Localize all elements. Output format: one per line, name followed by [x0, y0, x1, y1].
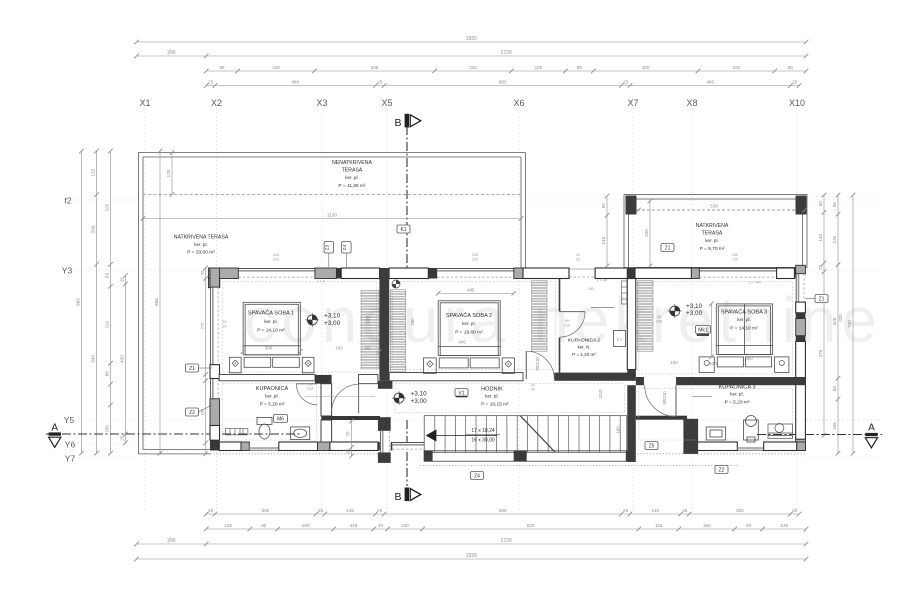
svg-text:220: 220 — [469, 65, 477, 70]
dimension row top-4 — [204, 80, 801, 88]
svg-text:20: 20 — [222, 325, 226, 329]
svg-text:540: 540 — [91, 355, 96, 363]
svg-text:A: A — [51, 423, 58, 434]
dimension col terrace-left — [601, 194, 609, 269]
dimension col left-1 865 — [76, 149, 84, 456]
svg-text:90/210: 90/210 — [535, 357, 540, 371]
bottom wall right pier a — [693, 442, 737, 451]
svg-text:160: 160 — [302, 523, 310, 528]
svg-text:60: 60 — [365, 346, 370, 351]
room label KUPAONICA — [256, 386, 289, 408]
dimension row top-3 — [204, 65, 808, 73]
svg-text:470: 470 — [706, 326, 711, 333]
tag Z1 left — [186, 364, 199, 372]
section marker A left — [49, 423, 61, 448]
svg-text:ker. pl.: ker. pl. — [462, 321, 476, 326]
svg-text:25: 25 — [818, 264, 823, 270]
level text soba1 — [324, 313, 341, 327]
svg-text:325: 325 — [832, 317, 837, 325]
window soba1 north — [238, 268, 315, 279]
svg-text:445: 445 — [458, 340, 466, 345]
svg-text:240: 240 — [472, 253, 478, 257]
window kupaonica west — [210, 379, 220, 399]
left wall gray block — [210, 399, 220, 426]
svg-text:60: 60 — [105, 371, 110, 377]
door kupaonica2 (arc) — [560, 312, 586, 338]
radiator kupaonica2 (east wall) — [622, 281, 628, 304]
pavement dotted line left — [143, 453, 392, 455]
leader line in vestibule — [305, 395, 375, 397]
svg-text:740: 740 — [847, 320, 852, 328]
closet soba2 (east wall) — [532, 281, 548, 351]
tag V1 underline — [456, 396, 467, 398]
window kupaonica south (low sill) — [249, 448, 278, 450]
svg-text:25: 25 — [208, 80, 214, 85]
svg-text:P = 14,10 m²: P = 14,10 m² — [730, 326, 758, 332]
closet soba1 (east wall) — [361, 291, 379, 369]
svg-text:185: 185 — [588, 287, 594, 291]
top wall gray square j5 — [691, 268, 699, 279]
central wall landing lower block — [378, 452, 391, 463]
dimension col right-1 — [818, 193, 826, 438]
svg-text:ker. pl.: ker. pl. — [705, 238, 719, 243]
section line A right (dash-dot) — [757, 434, 882, 436]
svg-text:200: 200 — [167, 50, 176, 56]
dimension row bottom-1 — [204, 508, 801, 516]
svg-text:+3,10: +3,10 — [324, 313, 341, 320]
svg-text:240: 240 — [273, 253, 279, 257]
svg-text:Z4: Z4 — [474, 473, 480, 479]
svg-text:Z4: Z4 — [342, 244, 347, 250]
svg-text:ker. pl.: ker. pl. — [485, 394, 499, 399]
svg-text:26: 26 — [222, 320, 226, 324]
tag Z4 bottom — [471, 472, 484, 480]
bottom wall gray square b — [318, 442, 330, 451]
svg-text:SPAVAĆA SOBA 3: SPAVAĆA SOBA 3 — [721, 309, 767, 316]
dimension right terrace 200 — [644, 199, 652, 269]
stairs label 17x18,24 / 16x30,00 — [466, 428, 500, 444]
svg-text:HODNIK: HODNIK — [481, 387, 503, 393]
svg-text:63: 63 — [105, 272, 110, 278]
dimension row top-2 200+1720 — [134, 50, 808, 58]
tag Z2 bottom — [715, 466, 728, 474]
boiler kupaonica3 — [744, 416, 759, 443]
svg-text:290: 290 — [262, 508, 270, 513]
svg-text:P = 33,00 m²: P = 33,00 m² — [187, 250, 215, 256]
left wall gray top (corner leg) — [210, 268, 220, 287]
tag Z3 leader — [328, 253, 330, 267]
bed soba2 — [424, 301, 515, 374]
svg-text:125: 125 — [91, 169, 96, 177]
svg-text:220: 220 — [732, 65, 740, 70]
top wall corner L leg down — [208, 279, 219, 288]
svg-text:P = 9,70 m²: P = 9,70 m² — [700, 246, 725, 252]
right wall gray block — [796, 319, 806, 336]
svg-text:+3,10: +3,10 — [411, 391, 428, 398]
tag Z1 right — [815, 295, 828, 303]
svg-text:s +: s + — [617, 338, 623, 342]
dimension col left-4 — [120, 273, 128, 445]
door soba2 (arc) — [526, 351, 554, 379]
svg-text:ker. pl.: ker. pl. — [730, 392, 744, 397]
svg-text:470: 470 — [818, 349, 823, 357]
svg-text:25: 25 — [346, 449, 351, 455]
vestibule north pier — [359, 375, 378, 384]
hallway top wall under soba2 — [389, 373, 523, 381]
svg-text:25: 25 — [377, 508, 383, 513]
svg-text:Y6: Y6 — [65, 440, 76, 450]
dimension bed3 length — [706, 301, 714, 359]
svg-text:55: 55 — [832, 202, 837, 208]
opening kupaonica2 north (dashed) — [569, 269, 595, 277]
dimension col right-3 740 — [847, 193, 855, 456]
svg-text:210: 210 — [564, 324, 570, 328]
svg-text:430: 430 — [120, 355, 125, 363]
top wall pier P3 — [523, 268, 569, 279]
bottom wall pier a — [219, 442, 241, 451]
svg-text:145: 145 — [818, 233, 823, 241]
svg-text:290: 290 — [736, 508, 744, 513]
dimension row top-1 total 1920 — [134, 36, 808, 44]
svg-text:1130: 1130 — [327, 213, 337, 218]
svg-text:206: 206 — [656, 320, 662, 324]
top wall gray square j3 — [514, 268, 523, 279]
section line A left (dash-dot) — [46, 433, 302, 435]
svg-text:145: 145 — [346, 508, 354, 513]
svg-text:90/210: 90/210 — [662, 391, 667, 405]
svg-text:115: 115 — [350, 523, 358, 528]
shower kupaonica2 — [614, 331, 626, 347]
svg-text:190: 190 — [365, 316, 370, 324]
top wall pier P6 — [777, 268, 795, 279]
svg-text:160: 160 — [703, 523, 711, 528]
radiator kupaonica1 — [226, 429, 248, 435]
svg-text:325: 325 — [105, 203, 110, 211]
svg-text:Z2: Z2 — [719, 467, 725, 473]
tag Z2 left — [186, 408, 199, 416]
section marker B top — [394, 114, 420, 129]
svg-text:X5: X5 — [381, 98, 392, 108]
window soba1 west — [210, 287, 220, 365]
door kupaonica3 (arc) — [644, 385, 676, 416]
tag K1 — [397, 225, 410, 233]
svg-text:620: 620 — [527, 523, 535, 528]
svg-text:Z2: Z2 — [189, 410, 195, 416]
svg-text:865: 865 — [154, 298, 159, 306]
bottom wall pier b — [279, 442, 318, 451]
bottom wall dark central foot — [378, 442, 393, 451]
svg-text:+3,10: +3,10 — [686, 303, 703, 310]
svg-text:NATKRIVENA TERASA: NATKRIVENA TERASA — [174, 235, 229, 241]
svg-text:s + 40: s + 40 — [597, 279, 607, 283]
svg-text:KUPAONICA 2: KUPAONICA 2 — [568, 338, 601, 344]
svg-text:145: 145 — [601, 236, 606, 244]
svg-text:120: 120 — [732, 258, 738, 262]
staircase — [424, 416, 627, 453]
svg-text:530: 530 — [710, 204, 718, 209]
svg-text:X2: X2 — [211, 98, 222, 108]
svg-text:+3,00: +3,00 — [686, 310, 703, 317]
bottom wall pier c — [330, 442, 378, 451]
svg-text:90: 90 — [308, 383, 312, 387]
svg-text:P = 11,85 m²: P = 11,85 m² — [338, 183, 366, 189]
central wall landing upper block — [378, 417, 391, 431]
small interior dimension texts — [265, 288, 753, 367]
kupaonica2 west wall upper — [559, 279, 561, 312]
pavement dotted line right — [634, 453, 806, 455]
svg-text:17 x 18,24: 17 x 18,24 — [471, 428, 495, 434]
dimension row bottom-4 total 1920 — [134, 553, 808, 561]
level text hodnik — [411, 391, 428, 405]
inner outline soba1 — [222, 282, 376, 373]
svg-text:200: 200 — [91, 225, 96, 233]
top wall corner L gray (with leg) — [208, 268, 238, 279]
natkrivena terasa (right) boundary double line — [624, 195, 807, 268]
svg-text:KUPAONICA: KUPAONICA — [256, 386, 289, 392]
svg-text:ker. pl.: ker. pl. — [737, 317, 751, 322]
svg-text:80: 80 — [746, 523, 752, 528]
dim line under bed1 — [241, 349, 382, 354]
svg-text:25: 25 — [120, 277, 125, 283]
svg-text:25: 25 — [682, 508, 688, 513]
hallway top wall under soba1 — [219, 375, 315, 381]
terrace (nenatkrivena + natkrivena) outer boundary double line — [139, 153, 526, 454]
right wall gray corner SE — [796, 439, 806, 450]
grid axis vertical dashed lines — [145, 108, 797, 512]
svg-text:P = 1,20 m²: P = 1,20 m² — [572, 352, 596, 357]
left wall pier low — [210, 426, 220, 441]
right wall dark square b — [796, 336, 806, 342]
svg-text:80: 80 — [261, 523, 267, 528]
svg-text:100: 100 — [335, 346, 343, 351]
svg-text:X6: X6 — [513, 98, 524, 108]
room label SPAVACA SOBA 2 — [446, 312, 492, 336]
tag Z3 — [324, 242, 334, 254]
svg-text:Y5: Y5 — [64, 415, 75, 425]
svg-text:155: 155 — [105, 425, 110, 433]
svg-text:Z3: Z3 — [325, 244, 330, 250]
svg-text:145: 145 — [832, 235, 837, 243]
kupaonica east wall lower pier — [321, 420, 332, 442]
svg-text:P = 14,10 m²: P = 14,10 m² — [257, 328, 285, 334]
terrace right boundary to building — [521, 153, 526, 269]
right wall pier b — [796, 341, 806, 439]
wall pier between doors (dark) — [315, 375, 332, 384]
kupaonica2 bottom wall — [554, 373, 636, 381]
left wall dark corner SW — [210, 440, 220, 450]
svg-text:530: 530 — [709, 361, 717, 366]
svg-text:75: 75 — [346, 431, 351, 437]
svg-text:1720: 1720 — [501, 538, 512, 544]
washer kupaonica3 — [768, 424, 792, 439]
svg-text:80: 80 — [577, 65, 583, 70]
floor drain symbol closet soba2 — [392, 280, 400, 288]
kupaonica3 west wall — [683, 419, 698, 454]
svg-text:1920: 1920 — [466, 36, 477, 42]
kupaonica east wall upper pier — [321, 384, 332, 416]
svg-text:V1: V1 — [458, 390, 464, 396]
top wall gray block W2 — [315, 268, 337, 279]
svg-text:25: 25 — [623, 508, 629, 513]
svg-text:+3,00: +3,00 — [324, 320, 341, 327]
sink kupaonica3 — [706, 427, 726, 440]
inner outline kupaonica3 — [639, 388, 793, 440]
svg-text:120: 120 — [472, 258, 478, 262]
svg-text:345: 345 — [371, 65, 379, 70]
svg-text:K1: K1 — [400, 227, 406, 233]
dimension terrace inner 865 — [154, 149, 162, 456]
section marker B bottom — [394, 488, 420, 504]
inner outline soba3 — [639, 282, 793, 375]
wall soba3/kupaonica3 — [636, 377, 806, 385]
svg-text:10: 10 — [576, 253, 580, 257]
pavement dotted line stairs — [420, 465, 740, 467]
terrace divider dashed line (nenatkrivena/natkrivena) — [143, 194, 521, 196]
svg-text:Z1: Z1 — [665, 245, 671, 251]
svg-text:90: 90 — [219, 65, 225, 70]
room label SPAVACA SOBA 1 — [248, 310, 294, 334]
svg-text:ker. pl.: ker. pl. — [345, 175, 359, 180]
svg-text:Y3: Y3 — [62, 266, 73, 276]
svg-text:30: 30 — [200, 270, 205, 275]
dimension col right-2 — [832, 193, 840, 456]
top wall pier P4 — [595, 268, 627, 279]
right wall pier a — [796, 302, 806, 313]
svg-text:125: 125 — [224, 523, 232, 528]
svg-text:TERASA: TERASA — [342, 168, 363, 174]
svg-text:275: 275 — [200, 322, 205, 329]
stairs direction arrow — [426, 429, 497, 441]
room label KUPAONICA 3 — [719, 385, 756, 406]
tag V1 hodnik — [455, 389, 468, 397]
svg-text:Z1: Z1 — [819, 296, 825, 302]
top wall dark square j2 — [428, 268, 437, 279]
room label KUPAONICA 2 — [568, 338, 601, 358]
window kupaonica3 south (low sill) — [737, 448, 763, 450]
svg-text:P = 10,15 m²: P = 10,15 m² — [481, 402, 509, 408]
svg-text:NATKRIVENA: NATKRIVENA — [696, 223, 729, 229]
dimension terrace 1130 — [141, 213, 524, 221]
tag Z1 right leader — [805, 298, 815, 300]
svg-text:325: 325 — [838, 314, 843, 322]
tag Z4 — [342, 242, 352, 254]
right terrace column left — [626, 196, 637, 215]
svg-text:80: 80 — [657, 315, 661, 319]
door kupaonica (arc) — [296, 384, 317, 405]
svg-text:M6: M6 — [277, 416, 284, 422]
top wall dark square j1 — [336, 268, 341, 279]
right wall dark square a — [796, 313, 806, 319]
svg-text:B: B — [394, 117, 401, 129]
svg-text:220: 220 — [105, 321, 110, 329]
svg-text:SPAVAĆA SOBA 2: SPAVAĆA SOBA 2 — [446, 312, 492, 319]
closet soba3 (west wall) — [638, 281, 654, 351]
room label HODNIK — [481, 387, 509, 408]
top wall pier P2 — [389, 268, 428, 279]
window soba2 north — [437, 268, 514, 279]
central interior wall (soba1/soba2) — [379, 268, 389, 381]
closet soba2 (west wall) — [390, 290, 406, 371]
svg-text:ker. pl.: ker. pl. — [265, 394, 279, 399]
svg-text:16 x 30,00: 16 x 30,00 — [471, 438, 495, 444]
window soba3 east — [796, 274, 806, 302]
grid axis labels X1..X10 — [139, 98, 805, 108]
svg-text:300: 300 — [745, 356, 753, 361]
svg-text:+3,00: +3,00 — [411, 398, 428, 405]
svg-text:25: 25 — [792, 508, 798, 513]
bottom wall right gray corner — [797, 442, 806, 451]
svg-text:55: 55 — [601, 203, 606, 209]
svg-text:KUPAONICA 3: KUPAONICA 3 — [719, 385, 756, 391]
wall kupaonica2/soba3 (white pier) — [627, 279, 636, 370]
dimension chain inside-left wall — [200, 266, 208, 457]
kupaonica2 west wall lower — [559, 338, 561, 373]
stair void top wall (dark band) — [636, 416, 687, 420]
left wall pier — [210, 365, 220, 379]
top wall pier P1 — [341, 268, 379, 279]
level marker hodnik — [392, 391, 406, 405]
bed soba3 — [699, 304, 789, 373]
svg-text:ker. N.: ker. N. — [578, 345, 591, 350]
svg-text:s + 0: s + 0 — [317, 280, 325, 284]
svg-text:25: 25 — [208, 508, 214, 513]
tiny rotated dims — [365, 314, 843, 434]
tag Mk1 underline — [697, 334, 709, 336]
shelf line kupaonica2 — [591, 307, 614, 309]
svg-text:X3: X3 — [316, 98, 327, 108]
svg-text:25: 25 — [792, 80, 798, 85]
wall right of stairs — [627, 385, 636, 462]
svg-text:40: 40 — [378, 523, 384, 528]
svg-text:X7: X7 — [627, 98, 638, 108]
svg-text:25: 25 — [120, 435, 125, 441]
tag M6 kupaonica — [274, 415, 288, 423]
inner outline soba2 — [392, 282, 555, 370]
top wall dark central — [380, 268, 390, 279]
wall kup2/soba3 dark foot — [627, 369, 636, 376]
tag Z1 left leader — [199, 367, 213, 369]
svg-text:ker. pl.: ker. pl. — [264, 319, 278, 324]
bed soba1 — [229, 302, 314, 373]
section marker A right — [865, 423, 877, 448]
svg-text:125: 125 — [780, 523, 788, 528]
section line B top (dash-dot) — [406, 126, 408, 268]
svg-text:SPAVAĆA SOBA 1: SPAVAĆA SOBA 1 — [248, 310, 294, 317]
towel rail kupaonica3 — [693, 396, 713, 398]
level text soba3 — [686, 303, 703, 317]
room label NENATKRIVENA TERASA — [332, 160, 373, 189]
svg-text:P = 5,20 m²: P = 5,20 m² — [260, 402, 285, 408]
svg-text:60: 60 — [832, 386, 837, 392]
tag Z2 left leader — [199, 405, 213, 412]
svg-text:20: 20 — [531, 388, 535, 392]
top wall dark corner NE — [794, 268, 805, 279]
dimension terrace 125 — [166, 150, 174, 197]
svg-text:X10: X10 — [789, 98, 805, 108]
svg-text:145: 145 — [651, 508, 659, 513]
grid axis horizontal dashed lines — [74, 200, 880, 458]
inner outline hodnik — [395, 384, 624, 413]
svg-text:115: 115 — [655, 523, 663, 528]
bottom wall right gray square a — [687, 442, 694, 451]
tag Mk1 soba3 — [696, 326, 711, 334]
svg-text:NENATKRIVENA: NENATKRIVENA — [332, 160, 373, 166]
svg-text:25: 25 — [623, 80, 629, 85]
svg-text:X1: X1 — [139, 98, 150, 108]
svg-text:200: 200 — [644, 229, 649, 237]
svg-text:Y7: Y7 — [65, 454, 76, 464]
dimension col left-2 — [91, 149, 99, 456]
